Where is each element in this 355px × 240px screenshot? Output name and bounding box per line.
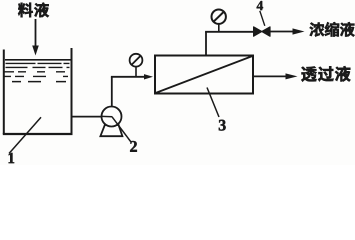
concentrate outlet arrow [270, 28, 305, 34]
label: permeate text 透过液 [301, 66, 350, 81]
leader line to module [207, 88, 219, 118]
label: feed liquid text 料液 [18, 3, 49, 18]
label 3 [219, 120, 226, 131]
leader line to valve [260, 11, 265, 26]
label: concentrate text 浓缩液 [310, 22, 355, 37]
pipe tank to pump [72, 116, 102, 118]
permeate outlet arrow [254, 73, 298, 79]
leader line to pump [102, 115, 113, 117]
liquid surface lines [3, 60, 71, 82]
valve 4 [254, 27, 270, 36]
label 4 [257, 1, 263, 10]
feed inlet arrow [32, 19, 39, 56]
pipe pump up and to module [111, 74, 153, 107]
pump 2 [100, 107, 122, 137]
leader line to tank [9, 117, 41, 153]
pressure gauge G1 [130, 54, 143, 77]
tank vessel 1 [3, 48, 73, 134]
pipe module top to valve [205, 32, 254, 56]
membrane module 3 [155, 56, 253, 94]
pressure gauge G2 [212, 10, 226, 32]
label 2 [130, 141, 137, 152]
label 1 [9, 153, 15, 163]
